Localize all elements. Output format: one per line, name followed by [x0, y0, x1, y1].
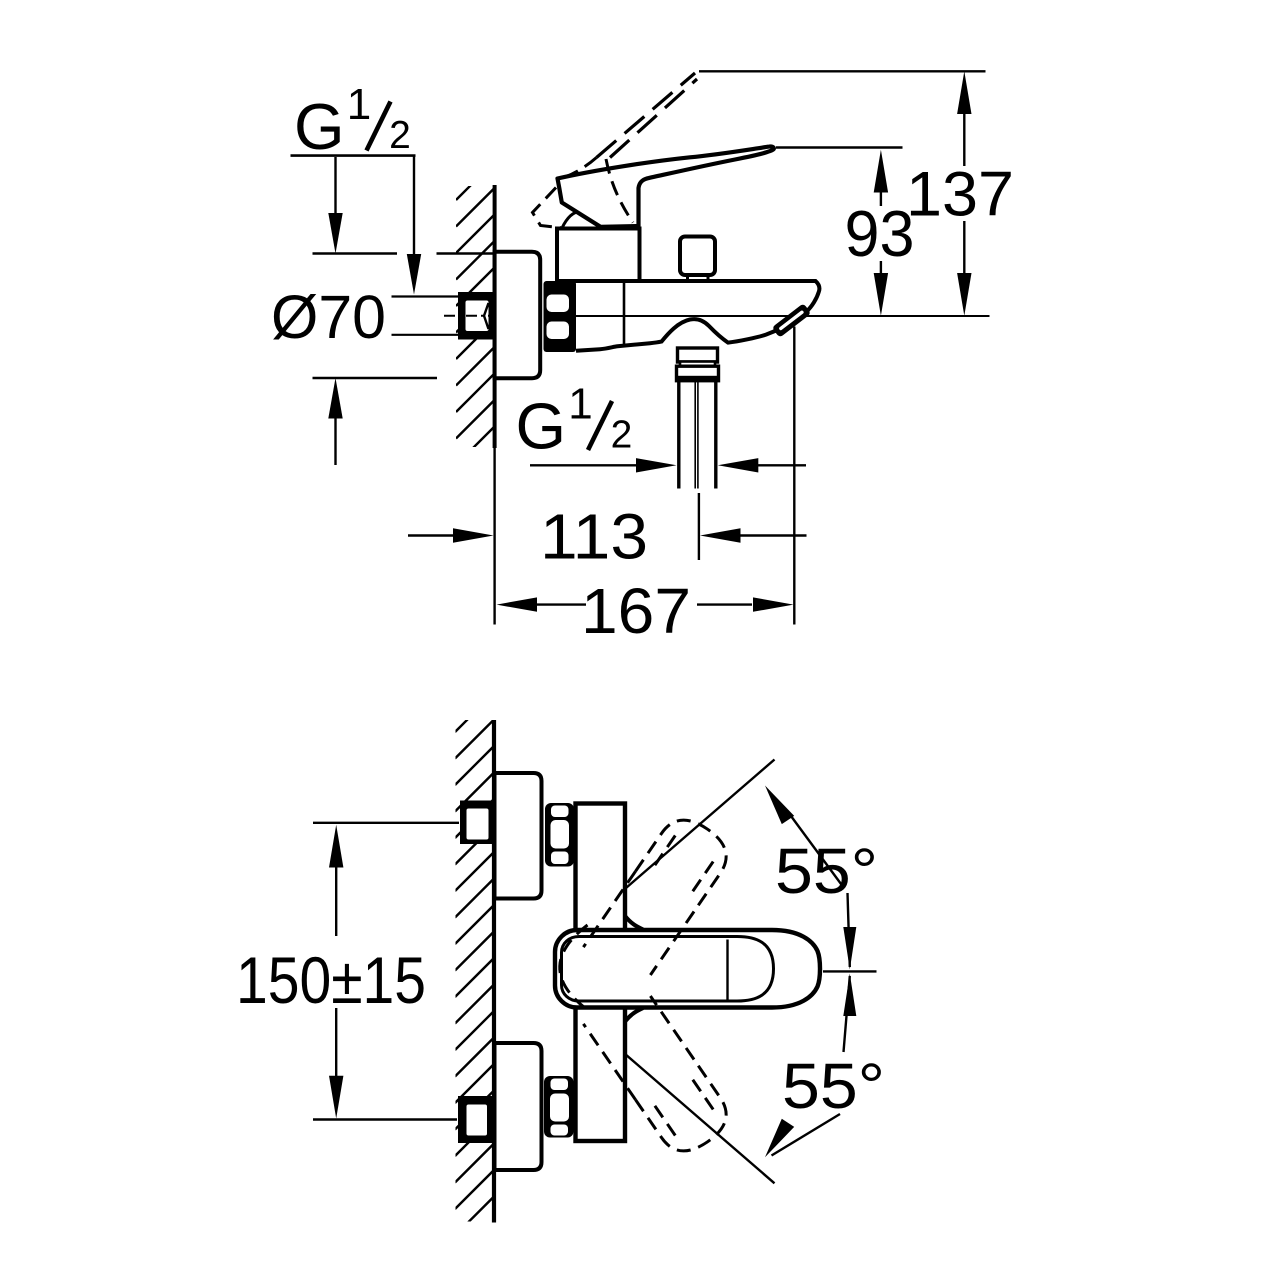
svg-text:1: 1: [568, 379, 592, 428]
wall surface edge (side view): [493, 185, 497, 448]
body centerline: [576, 315, 990, 317]
handle tip separation line: [726, 940, 728, 1003]
cartridge housing: [557, 229, 640, 282]
dimension Ø70 (flange diameter): [271, 157, 494, 465]
spout aerator (slanted outlet): [772, 303, 812, 338]
wall union (side view): [458, 292, 495, 340]
handle tip centre line: [823, 970, 877, 972]
wall hatching (side view): [456, 162, 494, 492]
svg-text:G: G: [294, 90, 345, 163]
svg-text:55°: 55°: [782, 1050, 885, 1122]
label G 1/2 (shower hose thread): [516, 379, 633, 462]
svg-text:Ø70: Ø70: [271, 283, 386, 351]
body bottom edge with shower-outlet dome: [576, 319, 778, 351]
spout projection extension line: [793, 327, 795, 625]
cartridge dome under handle: [562, 212, 601, 229]
svg-text:113: 113: [540, 501, 648, 573]
lever handle raised (dashed, open position): [597, 73, 698, 158]
handle rotated -55° (dashed, plan view): [583, 984, 736, 1162]
hose centre extension line: [698, 493, 700, 560]
upper union nut (plan view): [545, 803, 574, 867]
G1/2 hose dimension line with arrows: [530, 458, 806, 472]
svg-text:2: 2: [611, 414, 633, 457]
dashed pivot arc at handle base: [560, 925, 588, 1010]
lower union nut (plan view): [544, 1076, 574, 1138]
dimension 113: [408, 501, 807, 573]
flange / escutcheon (side view): [495, 252, 541, 378]
diverter knob: [680, 237, 715, 276]
dimension 55° lower: [626, 974, 885, 1184]
extension line from handle top: [776, 146, 903, 148]
lever handle (plan view, centre position): [555, 930, 820, 1008]
extension line from raised handle tip: [699, 70, 986, 72]
lower wall union (plan view): [458, 1096, 495, 1143]
shower hose tube: [679, 381, 716, 489]
svg-text:150±15: 150±15: [236, 943, 426, 1017]
handle inner contour (plan view): [562, 937, 774, 1002]
svg-text:2: 2: [389, 114, 411, 157]
lever handle (closed position, side view): [558, 146, 774, 226]
supply stub lines to wall union: [392, 295, 459, 297]
svg-text:167: 167: [581, 575, 691, 647]
upper flange (plan view): [495, 773, 542, 899]
wall surface edge (plan view): [492, 720, 496, 1223]
upper wall union (plan view): [460, 801, 495, 845]
svg-text:G: G: [516, 389, 567, 462]
body-to-handle neck curves: [625, 916, 643, 930]
faucet body (plan view): [576, 804, 626, 1142]
svg-text:93: 93: [845, 197, 915, 270]
union nut (side view): [544, 281, 577, 352]
wall hatching (plan view): [455, 694, 493, 1262]
label G 1/2 (wall union thread, top): [291, 80, 416, 163]
dimension 55° upper: [626, 760, 878, 970]
svg-text:1: 1: [347, 80, 371, 129]
dimension 137: [906, 71, 1014, 315]
svg-text:55°: 55°: [775, 835, 878, 907]
faucet body top edge and spout end: [556, 281, 819, 312]
shower hose connection nipple: [678, 348, 718, 362]
union centerline (dash-dot): [444, 315, 494, 317]
dimension 93: [845, 150, 915, 316]
dimension 150±15: [236, 823, 459, 1120]
dimension 167: [497, 575, 794, 647]
svg-text:137: 137: [906, 160, 1014, 230]
lower flange (plan view): [495, 1043, 542, 1170]
wall extension line down to 167 dimension: [493, 448, 495, 625]
handle rotated +55° (dashed, plan view): [583, 809, 736, 987]
body section line: [623, 282, 626, 346]
leader arrow from G1/2 label to union: [407, 156, 421, 295]
